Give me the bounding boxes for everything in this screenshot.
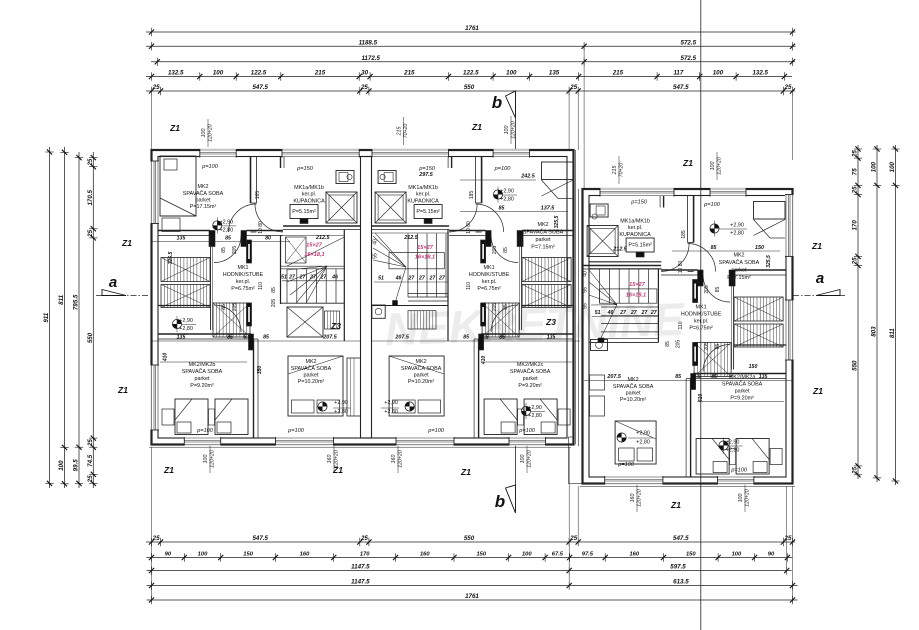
svg-text:150: 150 xyxy=(243,552,253,558)
svg-text:+2,90: +2,90 xyxy=(334,400,348,406)
U3 bed top bedroom xyxy=(754,202,786,220)
svg-text:+2,90: +2,90 xyxy=(179,318,193,324)
svg-text:135: 135 xyxy=(759,374,768,380)
left dim col 811/100 xyxy=(64,147,66,488)
svg-text:325,5: 325,5 xyxy=(766,255,772,268)
svg-text:85: 85 xyxy=(715,344,721,350)
svg-text:1188.5: 1188.5 xyxy=(359,40,378,47)
svg-text:27: 27 xyxy=(438,276,446,282)
svg-text:122.5: 122.5 xyxy=(463,70,479,77)
svg-text:100: 100 xyxy=(201,129,207,138)
bottom dim row 1147.5/613.5 xyxy=(147,585,798,587)
right dim col 100/803 xyxy=(876,145,878,482)
U3 left wall small closets xyxy=(590,375,605,390)
svg-text:120+20: 120+20 xyxy=(398,450,404,468)
svg-text:p=100: p=100 xyxy=(730,468,748,474)
window left top bedroom xyxy=(150,161,159,224)
svg-text:16×18,1: 16×18,1 xyxy=(626,293,646,299)
left building outer wall xyxy=(152,150,574,445)
svg-text:+2,80: +2,80 xyxy=(730,231,744,237)
U1 bed top bedroom xyxy=(160,156,196,216)
U3 wardrobe hatch xyxy=(734,297,783,321)
window right U3 mid xyxy=(785,300,794,360)
U3 stair fan xyxy=(589,270,617,305)
svg-text:p=100: p=100 xyxy=(518,428,536,434)
svg-text:97.5: 97.5 xyxy=(582,552,594,558)
svg-text:+2,80: +2,80 xyxy=(334,409,348,415)
svg-text:75: 75 xyxy=(852,168,859,175)
left dim col 911 xyxy=(49,147,51,488)
top dim row 25/547.5 xyxy=(146,90,795,92)
svg-text:122.5: 122.5 xyxy=(251,70,267,77)
U3 stair treads vertical xyxy=(599,269,601,303)
window right U3 top xyxy=(785,195,794,257)
top dim row 1761 xyxy=(146,31,796,33)
svg-text:parket: parket xyxy=(536,237,551,243)
U2 wardrobe hatch xyxy=(522,258,571,282)
U3 bed bottom-right xyxy=(615,421,656,464)
svg-text:MK1: MK1 xyxy=(237,265,248,271)
svg-text:Z3: Z3 xyxy=(545,317,556,327)
svg-text:117: 117 xyxy=(673,70,683,77)
svg-text:Z1: Z1 xyxy=(117,385,128,395)
svg-text:410: 410 xyxy=(481,356,487,366)
svg-text:10: 10 xyxy=(678,268,684,274)
U2 hall door arcs xyxy=(491,236,518,263)
svg-text:p=100: p=100 xyxy=(196,428,214,434)
svg-text:85: 85 xyxy=(711,245,717,251)
svg-text:100: 100 xyxy=(889,161,896,172)
U1 stairs xyxy=(280,236,282,305)
svg-text:150: 150 xyxy=(755,245,764,251)
svg-text:P=5.15m²: P=5.15m² xyxy=(292,209,316,215)
svg-text:MK2: MK2 xyxy=(733,253,744,259)
svg-text:MK1a/MK1b: MK1a/MK1b xyxy=(294,185,324,191)
svg-text:MK2/MK2c: MK2/MK2c xyxy=(517,362,544,368)
U2 stair treads horizontal xyxy=(408,293,448,295)
svg-text:100: 100 xyxy=(213,70,224,77)
svg-text:15×27: 15×27 xyxy=(417,245,434,251)
svg-text:Z1: Z1 xyxy=(682,158,693,168)
svg-text:25: 25 xyxy=(87,475,94,483)
svg-text:+2,90: +2,90 xyxy=(726,440,740,446)
svg-text:207.5: 207.5 xyxy=(322,335,337,341)
svg-text:Z1: Z1 xyxy=(163,465,174,475)
U1 beds bottom-left room xyxy=(160,361,247,363)
right building outer wall xyxy=(583,189,793,484)
svg-text:p=100: p=100 xyxy=(287,428,305,434)
svg-text:120+20: 120+20 xyxy=(210,450,216,468)
U2 bed bottom-right xyxy=(389,356,444,416)
bottom dim row segments xyxy=(147,557,793,559)
U1 bedroom top wall/door xyxy=(250,157,252,204)
U3 hall door arcs xyxy=(703,275,730,302)
svg-text:160: 160 xyxy=(300,552,310,558)
svg-text:p=150: p=150 xyxy=(418,166,436,172)
svg-text:ker.pl.: ker.pl. xyxy=(694,319,708,325)
svg-text:1147.5: 1147.5 xyxy=(351,564,370,571)
U1 shower xyxy=(326,192,357,223)
svg-text:212.5: 212.5 xyxy=(315,235,330,241)
svg-text:P=6.75m²: P=6.75m² xyxy=(231,286,255,292)
U3 dims y338 xyxy=(584,380,792,382)
svg-text:160: 160 xyxy=(420,552,430,558)
svg-text:85: 85 xyxy=(711,374,717,380)
svg-text:205: 205 xyxy=(492,303,498,312)
U2 stair-side hatch closet xyxy=(408,311,436,329)
svg-text:99.5: 99.5 xyxy=(73,459,80,472)
U2 elevation marker top xyxy=(493,190,502,199)
svg-text:SPAVAČA SOBA: SPAVAČA SOBA xyxy=(523,229,564,236)
svg-text:215: 215 xyxy=(403,70,415,77)
svg-text:27: 27 xyxy=(429,276,437,282)
svg-text:MK1: MK1 xyxy=(696,305,707,311)
svg-text:ker.pl.: ker.pl. xyxy=(628,225,642,231)
U1 bottom-left bedroom xyxy=(172,319,181,328)
svg-text:100: 100 xyxy=(506,70,517,77)
witness right top xyxy=(792,95,794,160)
svg-text:547.5: 547.5 xyxy=(252,84,268,91)
svg-text:547.5: 547.5 xyxy=(252,535,268,542)
svg-text:811: 811 xyxy=(58,294,65,304)
U2 wall mid-horizontal xyxy=(481,333,574,335)
window left bottom bedroom xyxy=(150,365,159,430)
svg-text:+2,90: +2,90 xyxy=(219,219,233,225)
svg-text:74.5: 74.5 xyxy=(87,454,94,467)
svg-text:85: 85 xyxy=(221,247,227,253)
svg-text:parket: parket xyxy=(195,376,210,382)
svg-text:597.5: 597.5 xyxy=(670,564,686,571)
svg-text:215: 215 xyxy=(314,70,326,77)
svg-text:100: 100 xyxy=(522,552,532,558)
svg-text:803: 803 xyxy=(871,326,878,337)
svg-text:b: b xyxy=(492,93,502,112)
U2 wall hall-bath xyxy=(451,157,453,169)
svg-text:1761: 1761 xyxy=(465,593,479,600)
svg-text:+2,90: +2,90 xyxy=(528,405,542,411)
svg-text:51: 51 xyxy=(378,276,384,282)
svg-text:550: 550 xyxy=(87,332,94,343)
svg-text:811: 811 xyxy=(889,328,896,338)
svg-text:27: 27 xyxy=(619,310,627,316)
svg-text:HODNIK/STUBE: HODNIK/STUBE xyxy=(223,272,264,278)
svg-text:parket: parket xyxy=(304,373,319,379)
svg-text:55: 55 xyxy=(583,303,589,309)
svg-text:572.5: 572.5 xyxy=(681,55,697,62)
svg-text:27: 27 xyxy=(320,274,328,280)
svg-text:205: 205 xyxy=(271,299,277,308)
svg-text:40: 40 xyxy=(373,239,379,245)
U2 stair treads vertical xyxy=(407,234,409,298)
svg-text:HODNIK/STUBE: HODNIK/STUBE xyxy=(681,312,722,318)
U2 bottom-left bedroom xyxy=(521,406,530,415)
svg-text:25: 25 xyxy=(360,84,368,91)
svg-text:27: 27 xyxy=(288,274,296,280)
svg-text:MK2: MK2 xyxy=(537,222,548,228)
svg-text:Z1: Z1 xyxy=(169,123,180,133)
svg-text:410: 410 xyxy=(698,394,704,404)
svg-text:p=150: p=150 xyxy=(630,200,648,206)
svg-text:25: 25 xyxy=(784,84,792,91)
svg-text:HODNIK/STUBE: HODNIK/STUBE xyxy=(469,272,510,278)
svg-text:132.5: 132.5 xyxy=(168,70,184,77)
svg-text:p=100: p=100 xyxy=(703,202,721,208)
top dim row segments xyxy=(146,76,792,78)
U2 dims y338 xyxy=(372,340,580,342)
svg-text:Z1: Z1 xyxy=(811,241,822,251)
U2 stair fan xyxy=(373,236,406,267)
right dim col segments xyxy=(857,145,859,479)
U2 shower xyxy=(375,192,406,223)
svg-text:85: 85 xyxy=(263,335,269,341)
svg-text:135: 135 xyxy=(177,236,186,242)
svg-text:85: 85 xyxy=(499,206,505,212)
svg-text:85: 85 xyxy=(221,304,227,310)
svg-text:SPAVAČA SOBA: SPAVAČA SOBA xyxy=(613,383,654,390)
svg-text:parket: parket xyxy=(523,376,538,382)
svg-text:KUPAONICA: KUPAONICA xyxy=(293,199,325,205)
svg-text:27: 27 xyxy=(630,310,638,316)
svg-text:P=9.20m²: P=9.20m² xyxy=(190,383,214,389)
svg-text:1172.5: 1172.5 xyxy=(361,55,380,62)
svg-text:572.5: 572.5 xyxy=(681,40,697,47)
svg-text:85: 85 xyxy=(715,287,721,293)
svg-text:P=10.20m²: P=10.20m² xyxy=(620,397,647,403)
U2 wall between bottom bedrooms xyxy=(478,339,480,438)
svg-text:+2,80: +2,80 xyxy=(636,440,650,446)
svg-text:+2,80: +2,80 xyxy=(219,227,233,233)
svg-text:P=9.20m²: P=9.20m² xyxy=(518,383,542,389)
U1 wall mid-horizontal xyxy=(158,333,251,335)
U3 stair treads horizontal xyxy=(601,306,658,308)
svg-text:25: 25 xyxy=(852,466,859,474)
svg-text:85: 85 xyxy=(503,247,509,253)
svg-text:137.5: 137.5 xyxy=(541,206,555,212)
left dim col segments xyxy=(92,152,94,488)
svg-text:MK2: MK2 xyxy=(416,359,427,365)
svg-text:1147.5: 1147.5 xyxy=(351,579,370,586)
U3 wall mid-horizontal xyxy=(693,373,786,375)
svg-text:550: 550 xyxy=(464,535,475,542)
svg-text:MK1a/MK1b: MK1a/MK1b xyxy=(620,219,650,225)
U3 wc box xyxy=(591,340,608,351)
svg-text:15×27: 15×27 xyxy=(306,243,323,249)
svg-text:+2,80: +2,80 xyxy=(500,197,514,203)
svg-text:100: 100 xyxy=(871,161,878,172)
svg-text:120+20: 120+20 xyxy=(527,450,533,468)
svg-text:85: 85 xyxy=(227,335,233,341)
svg-text:120+20: 120+20 xyxy=(745,489,751,507)
svg-text:27: 27 xyxy=(299,274,307,280)
expansion joint outlines xyxy=(575,150,577,445)
svg-text:SPAVAČA SOBA: SPAVAČA SOBA xyxy=(510,368,551,375)
U2 wall bedroom-hall xyxy=(522,230,574,232)
U1 dims y338 xyxy=(152,340,360,342)
svg-text:P=17.15m²: P=17.15m² xyxy=(190,204,217,210)
svg-text:90: 90 xyxy=(768,552,775,558)
svg-text:85: 85 xyxy=(463,335,469,341)
svg-text:27: 27 xyxy=(408,276,416,282)
svg-text:16×18,1: 16×18,1 xyxy=(415,255,435,261)
left dim col 795.5/99.5 xyxy=(78,152,80,488)
bottom dim row 25/547.5 xyxy=(146,541,795,543)
svg-text:100: 100 xyxy=(710,162,716,171)
svg-text:ker.pl.: ker.pl. xyxy=(482,279,496,285)
svg-text:205: 205 xyxy=(704,285,710,294)
svg-text:150: 150 xyxy=(686,552,696,558)
svg-text:+2,90: +2,90 xyxy=(384,400,398,406)
svg-text:MK1: MK1 xyxy=(484,265,495,271)
svg-text:297.5: 297.5 xyxy=(418,172,433,178)
svg-text:10: 10 xyxy=(258,228,264,234)
svg-text:215: 215 xyxy=(397,127,403,137)
svg-text:170: 170 xyxy=(360,552,370,558)
svg-text:parket: parket xyxy=(735,389,750,395)
svg-text:P=9.20m²: P=9.20m² xyxy=(730,396,754,402)
svg-text:MK2: MK2 xyxy=(197,184,208,190)
svg-text:KUPAONICA: KUPAONICA xyxy=(619,232,651,238)
U2 beds bottom-left room xyxy=(485,361,572,363)
svg-text:25: 25 xyxy=(569,535,577,542)
svg-text:70+20: 70+20 xyxy=(403,124,409,139)
svg-text:ker.pl.: ker.pl. xyxy=(302,192,316,198)
svg-text:51: 51 xyxy=(595,310,601,316)
svg-text:135: 135 xyxy=(177,335,186,341)
svg-text:46: 46 xyxy=(331,274,338,280)
window top U2 bath xyxy=(372,149,449,158)
top dim row 1172.5 / 572.5 xyxy=(151,61,795,63)
svg-text:P=10.20m²: P=10.20m² xyxy=(298,379,325,385)
svg-text:1761: 1761 xyxy=(465,25,479,32)
svg-text:207.5: 207.5 xyxy=(394,335,409,341)
svg-text:40: 40 xyxy=(583,271,589,277)
svg-text:185: 185 xyxy=(681,230,687,239)
svg-text:135: 135 xyxy=(547,335,556,341)
bottom dim row 1761 xyxy=(147,599,798,601)
svg-text:KUPAONICA: KUPAONICA xyxy=(407,199,439,205)
U3 wall hall-bath xyxy=(663,196,665,208)
svg-text:SPAVAČA SOBA: SPAVAČA SOBA xyxy=(722,381,763,388)
svg-text:120+20: 120+20 xyxy=(637,489,643,507)
U2 wc box xyxy=(372,305,385,318)
svg-text:MK2/MK2b: MK2/MK2b xyxy=(189,362,216,368)
svg-text:25: 25 xyxy=(784,535,792,542)
svg-text:212.5: 212.5 xyxy=(612,247,627,253)
svg-text:parket: parket xyxy=(732,268,747,274)
witness joint top xyxy=(583,48,585,189)
window top U3 bath xyxy=(600,188,674,197)
svg-text:MK2/MK2a: MK2/MK2a xyxy=(729,375,756,381)
svg-text:170: 170 xyxy=(852,220,859,231)
svg-text:215: 215 xyxy=(612,166,618,176)
svg-text:185: 185 xyxy=(469,191,475,200)
U1 hall door arcs xyxy=(214,236,241,263)
U1 toilet xyxy=(336,171,354,184)
svg-text:100: 100 xyxy=(58,460,65,471)
svg-text:100: 100 xyxy=(520,455,526,464)
svg-text:MK1a/MK1b: MK1a/MK1b xyxy=(408,185,438,191)
window bottom U1a xyxy=(184,437,220,446)
U3 bottom-left bedroom xyxy=(719,441,728,450)
svg-text:547.5: 547.5 xyxy=(673,84,689,91)
svg-text:27: 27 xyxy=(418,276,426,282)
svg-text:325,5: 325,5 xyxy=(554,216,560,229)
svg-text:p=150: p=150 xyxy=(296,166,314,172)
svg-text:135: 135 xyxy=(549,70,560,77)
svg-text:100: 100 xyxy=(738,494,744,503)
svg-text:90: 90 xyxy=(165,552,172,558)
svg-text:25: 25 xyxy=(569,84,577,91)
svg-text:120+20: 120+20 xyxy=(208,124,214,142)
vertical section line full height xyxy=(700,0,702,630)
U2 bedroom top wall/door xyxy=(481,157,483,204)
U3 beds bottom-left room xyxy=(697,401,784,403)
svg-text:207.5: 207.5 xyxy=(606,374,621,380)
svg-text:SPAVAČA SOBA: SPAVAČA SOBA xyxy=(182,368,223,375)
svg-text:150: 150 xyxy=(749,364,758,370)
witness left bottom xyxy=(151,447,153,602)
svg-text:p=100: p=100 xyxy=(427,428,445,434)
svg-text:100: 100 xyxy=(713,70,724,77)
svg-text:P=7.15m²: P=7.15m² xyxy=(531,245,555,251)
svg-text:25: 25 xyxy=(852,186,859,194)
svg-text:25: 25 xyxy=(152,535,160,542)
U2 stair landing box xyxy=(389,253,444,269)
svg-text:160: 160 xyxy=(629,552,639,558)
svg-text:SPAVAČA SOBA: SPAVAČA SOBA xyxy=(719,259,760,266)
svg-text:p=100: p=100 xyxy=(494,166,512,172)
U1 landing box xyxy=(287,307,323,337)
svg-text:Z1: Z1 xyxy=(812,386,823,396)
right dim col 100/811 xyxy=(895,145,897,485)
svg-text:46: 46 xyxy=(395,276,402,282)
witness joint bottom xyxy=(568,447,570,588)
window bottom U1b xyxy=(276,437,334,446)
svg-text:205: 205 xyxy=(232,303,238,312)
witness right bottom xyxy=(792,486,794,602)
svg-text:25: 25 xyxy=(87,439,94,447)
svg-text:46: 46 xyxy=(607,310,614,316)
svg-text:170.5: 170.5 xyxy=(87,189,94,205)
top dim row 1188.5 / 572.5 xyxy=(146,45,796,47)
window bottom U3b xyxy=(605,476,663,485)
svg-text:25: 25 xyxy=(852,150,859,158)
U3 bedroom top wall/door xyxy=(693,196,695,243)
svg-text:242.5: 242.5 xyxy=(520,174,535,180)
U3 stair core xyxy=(589,268,661,270)
svg-text:150: 150 xyxy=(476,552,486,558)
svg-text:P=7.15m²: P=7.15m² xyxy=(727,275,751,281)
svg-text:613.5: 613.5 xyxy=(673,579,689,586)
svg-text:parket: parket xyxy=(414,373,429,379)
svg-text:85: 85 xyxy=(503,304,509,310)
svg-text:27: 27 xyxy=(650,310,658,316)
svg-text:120+20: 120+20 xyxy=(334,450,340,468)
svg-text:parket: parket xyxy=(196,198,211,204)
svg-text:100: 100 xyxy=(732,552,742,558)
window bottom U2b xyxy=(396,437,454,446)
svg-text:160: 160 xyxy=(391,455,397,464)
svg-text:51: 51 xyxy=(281,274,287,280)
svg-text:10: 10 xyxy=(466,228,472,234)
svg-text:+2,90: +2,90 xyxy=(730,223,744,229)
svg-text:Z1: Z1 xyxy=(471,122,482,132)
svg-text:55: 55 xyxy=(373,253,379,259)
U3 wall between bottom bedrooms xyxy=(690,379,692,478)
U3 elevation marker top xyxy=(710,224,719,233)
svg-text:85: 85 xyxy=(675,374,681,380)
svg-text:P=5.15m²: P=5.15m² xyxy=(628,243,652,249)
